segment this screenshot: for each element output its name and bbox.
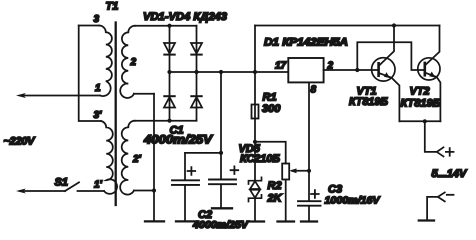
svg-text:~220V: ~220V [4, 136, 37, 148]
arrowhead mains pin 1 [16, 93, 26, 98]
ground bar C1 [176, 220, 196, 222]
node top rail column 1 [167, 24, 171, 28]
svg-text:D1 КР142ЕН5А: D1 КР142ЕН5А [264, 37, 348, 49]
wiper R2 [292, 170, 309, 172]
node plus rail R1 drop [253, 70, 257, 74]
ground bar C3 [301, 220, 317, 222]
svg-text:КТ819Б: КТ819Б [349, 96, 388, 108]
wire pin 8 down [308, 82, 310, 201]
node plus rail column 1 [167, 70, 171, 74]
wire cap drop vertical [220, 72, 222, 153]
plus sign C1 [188, 167, 196, 175]
svg-text:2K: 2K [267, 193, 283, 205]
secondary winding 2' [120, 121, 135, 195]
plus sign C3 [311, 190, 319, 198]
switch S1 blade [65, 182, 79, 191]
ground bar VD5 [247, 220, 264, 222]
svg-text:1: 1 [95, 83, 101, 94]
wire common vertical [153, 94, 155, 221]
minus sign output [447, 194, 454, 196]
wire bridge top rail [135, 25, 197, 27]
transistor VT1 [372, 58, 395, 81]
svg-text:S1: S1 [55, 177, 68, 189]
node plus rail cap drop [219, 70, 223, 74]
wire top rail drop to plus rail [254, 26, 256, 73]
node common junction [152, 188, 156, 192]
svg-text:R1: R1 [263, 92, 277, 104]
node VT1 base [355, 68, 359, 72]
wire pin 3 top [79, 25, 99, 27]
wire winding 2' bottom [134, 190, 154, 192]
wire node to R2 top [255, 142, 286, 164]
svg-text:8: 8 [311, 85, 317, 96]
node R1 VD5 R2 [253, 140, 257, 144]
node VT1 collector top rail [392, 23, 396, 27]
ground common bar [145, 220, 164, 222]
svg-text:2': 2' [132, 154, 142, 165]
svg-text:4000m/25V: 4000m/25V [143, 133, 213, 147]
wire R2 bottom [285, 180, 287, 221]
capacitor C3 [298, 200, 321, 202]
node pin8 wiper C3 [307, 169, 311, 173]
arrowhead S1 wire [16, 189, 26, 194]
transistor VT2 [418, 58, 440, 80]
diode VD2 [191, 43, 202, 54]
wire mains pin 1 [20, 95, 100, 97]
wire emitter rail [399, 120, 440, 122]
svg-text:КС210Б: КС210Б [240, 153, 280, 165]
svg-text:3: 3 [94, 14, 100, 25]
node plus rail column 2 [194, 70, 198, 74]
svg-text:3': 3' [94, 110, 103, 121]
ground bar C2 [212, 207, 232, 209]
node emitter rail [423, 119, 427, 123]
svg-text:17: 17 [275, 61, 287, 72]
connector plus output [437, 147, 444, 156]
regulator D1 box [288, 58, 323, 82]
svg-text:КТ819Б: КТ819Б [401, 98, 441, 110]
secondary winding 2 [120, 26, 135, 98]
wire bridge column 2 [196, 26, 198, 121]
svg-text:VD1-VD4 КД243: VD1-VD4 КД243 [143, 11, 227, 23]
diode VD3 [164, 95, 174, 97]
svg-text:VT2: VT2 [410, 86, 430, 98]
wire winding 2 bottom to common [134, 93, 154, 95]
ground bar minus output [419, 219, 434, 221]
wire left rail 3 to 3' [79, 26, 101, 122]
plus sign output [446, 148, 454, 156]
svg-text:2: 2 [130, 57, 137, 68]
ground bar R2 [278, 220, 295, 222]
capacitor C1 [184, 153, 186, 180]
capacitor C2 [220, 153, 222, 179]
node cap rail [219, 151, 223, 155]
node bottom rail column 1 [167, 119, 171, 123]
wire bridge bottom rail [134, 120, 197, 122]
transformer core [115, 23, 117, 206]
wire S1 left with arrow [20, 190, 65, 192]
wire top collector rail [255, 25, 440, 27]
primary winding upper 3-1 [99, 26, 112, 97]
potentiometer R2 [282, 164, 289, 180]
svg-text:1000m/16V: 1000m/16V [325, 195, 381, 207]
plus sign C2 [231, 166, 239, 174]
svg-text:R2: R2 [268, 180, 282, 192]
diode VD4 [191, 95, 201, 97]
svg-text:300: 300 [262, 103, 281, 115]
primary winding lower 3'-1' [101, 121, 117, 194]
svg-text:T1: T1 [106, 1, 119, 13]
wire pin 2 to VT1 base [324, 69, 379, 71]
svg-text:4000m/25V: 4000m/25V [192, 220, 249, 231]
wire bridge column 1 [169, 26, 171, 121]
wire S1 to pin 1' [78, 190, 105, 192]
zener VD5 [249, 177, 262, 184]
wire minus to ground [427, 197, 438, 220]
diode VD1 [164, 43, 175, 54]
resistor R1 vertical wire [254, 72, 256, 181]
connector minus output [438, 192, 445, 201]
wire plus rail [170, 71, 289, 73]
svg-text:1': 1' [94, 180, 103, 191]
wire VT1 base to VT2 base [357, 42, 425, 70]
wire to plus output [425, 121, 437, 152]
svg-text:5...14V: 5...14V [432, 168, 469, 180]
resistor R1 [252, 105, 259, 119]
wire cap top rail [185, 152, 221, 154]
